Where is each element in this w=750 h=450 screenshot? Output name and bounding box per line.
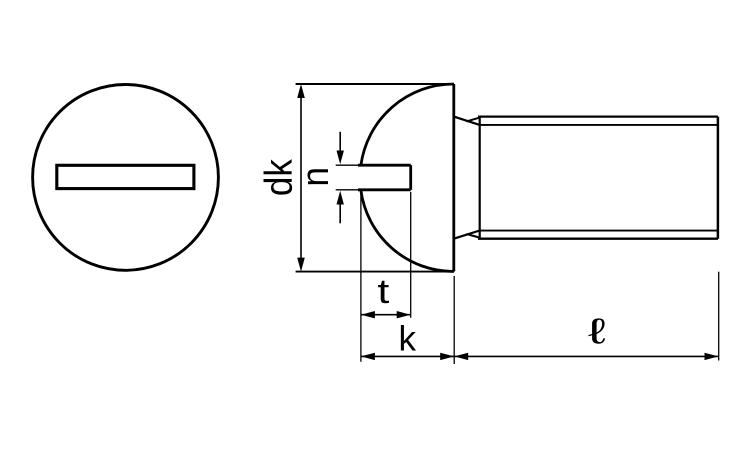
side view: thread runout vertical line <box>479 117 481 239</box>
dk dimension line <box>300 97 302 259</box>
t extension line right <box>410 192 412 318</box>
n arrow bottom (pointing up) <box>339 204 341 224</box>
l arrow right <box>705 353 719 360</box>
t extension line left <box>360 192 362 362</box>
side view: dome arc upper part <box>361 84 454 165</box>
k dimension line <box>361 355 454 357</box>
side view: slot bottom line <box>336 189 361 191</box>
side view: dome arc lower part <box>361 190 454 272</box>
k arrow left <box>361 353 375 360</box>
svg-text:n: n <box>294 167 336 187</box>
dk extension line top <box>296 83 454 85</box>
side view: head bearing face (vertical edge) <box>452 84 455 272</box>
dk arrow up <box>297 84 305 98</box>
l extension line right <box>718 272 720 361</box>
side view: thread root bottom line <box>480 230 718 232</box>
side view: neck cone bottom <box>454 231 480 239</box>
t arrow right <box>397 311 411 318</box>
svg-text:t: t <box>377 273 389 311</box>
svg-text:ℓ: ℓ <box>588 310 606 351</box>
side view: shank outer top line <box>478 115 718 117</box>
side view: neck cone top <box>454 117 480 125</box>
l dimension line <box>454 355 718 357</box>
side view: slot top line (thin n-extension + thick slot edge) <box>336 164 361 166</box>
svg-text:k: k <box>399 320 417 359</box>
side view: thread chamfer top <box>467 118 480 122</box>
side view: shank end vertical <box>717 117 720 239</box>
side view: shank outer bottom line <box>478 238 718 240</box>
dk arrow down <box>297 258 305 272</box>
k/l shared extension line <box>453 276 455 364</box>
dk extension line bottom <box>296 271 454 273</box>
l arrow left <box>454 353 468 360</box>
t dimension line <box>361 314 411 316</box>
screw head front view: outer circle <box>33 84 219 270</box>
k arrow right <box>440 353 454 360</box>
side view: thread root top line <box>480 124 718 126</box>
t arrow left <box>361 311 375 318</box>
screw head front view: slot rectangle <box>57 165 194 188</box>
side view: thread chamfer bottom <box>467 234 480 238</box>
side view: slot inner end (vertical) <box>409 165 412 190</box>
n arrow top (pointing down) <box>339 132 341 151</box>
